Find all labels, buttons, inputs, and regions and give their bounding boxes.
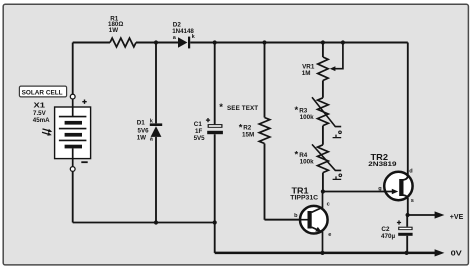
wire solar cell top lead: [72, 43, 74, 95]
resistor R2: [259, 118, 270, 144]
wire 0V rail: [215, 252, 435, 255]
svg-text:470µ: 470µ: [381, 233, 396, 240]
output +VE arrowhead: [435, 211, 445, 218]
wire VR1 wiper to top rail: [335, 43, 343, 69]
node C1 bottom junction: [213, 220, 217, 224]
label X1 plus polarity: [82, 100, 86, 104]
label C1 plus polarity: [206, 118, 210, 122]
svg-text:5V6: 5V6: [138, 127, 150, 134]
solar cell X1 body: [55, 99, 91, 167]
wire positive top rail: [73, 42, 408, 44]
wire TR1 base lead: [265, 219, 308, 221]
transistor TR1: [265, 192, 328, 253]
wire TR2 drain column: [407, 43, 409, 177]
svg-text:100k: 100k: [300, 158, 315, 165]
resistor R1: [110, 38, 136, 47]
node D1 top rail junction: [154, 40, 158, 44]
wire R2 branch: [264, 43, 266, 220]
node C1 top rail junction: [213, 40, 217, 44]
wire TR2 gate line: [323, 191, 392, 193]
svg-text:*: *: [219, 102, 223, 113]
svg-text:100k: 100k: [300, 114, 315, 121]
preset resistor R3: [312, 97, 341, 137]
svg-text:1W: 1W: [137, 134, 146, 141]
svg-text:5V5: 5V5: [194, 135, 206, 142]
svg-text:*: *: [295, 149, 299, 160]
label SOLAR CELL callout box: [19, 86, 66, 97]
svg-text:b: b: [294, 213, 298, 219]
node TR1 emitter 0V junction: [320, 251, 324, 255]
svg-text:+VE: +VE: [450, 212, 464, 221]
svg-text:D1: D1: [137, 119, 146, 126]
node VR1 wiper rail junction: [341, 40, 345, 44]
node C2 0V junction: [405, 251, 409, 255]
node TR1 collector gate junction: [321, 189, 325, 193]
svg-text:15M: 15M: [242, 131, 254, 138]
node R2 top rail junction: [262, 40, 266, 44]
svg-text:TR1: TR1: [292, 186, 309, 196]
zener diode D1: [150, 123, 162, 136]
capacitor C1: [207, 124, 223, 134]
svg-text:0V: 0V: [451, 249, 462, 258]
wire D1 branch: [155, 43, 157, 223]
svg-text:g: g: [378, 186, 382, 192]
wire TR2 source column: [407, 198, 409, 215]
wire C2 leads: [406, 215, 408, 253]
node solar cell bottom terminal: [70, 167, 75, 172]
wire C1 column down to 0V rail: [214, 223, 216, 253]
svg-text:*: *: [295, 105, 299, 116]
svg-text:C2: C2: [381, 226, 390, 233]
node D1 bottom junction: [154, 220, 158, 224]
svg-text:SEE TEXT: SEE TEXT: [227, 105, 258, 112]
svg-text:e: e: [328, 232, 331, 238]
wire bottom negative horizontal: [73, 222, 215, 224]
svg-text:d: d: [409, 169, 413, 175]
svg-text:s: s: [411, 198, 414, 204]
label C2 plus polarity: [397, 220, 401, 224]
potentiometer VR1: [318, 57, 336, 81]
svg-text:2N3819: 2N3819: [368, 161, 397, 168]
svg-text:1W: 1W: [109, 27, 118, 34]
wire +VE output line: [408, 214, 435, 216]
svg-text:1M: 1M: [302, 70, 311, 77]
wire solar cell bottom lead: [72, 171, 74, 222]
svg-text:45mA: 45mA: [33, 117, 50, 124]
output 0V arrowhead: [435, 249, 445, 256]
node solar cell top terminal: [70, 94, 75, 99]
svg-text:R2: R2: [243, 124, 252, 131]
transistor TR2: [384, 172, 413, 200]
diode D2: [178, 37, 190, 49]
wire C1 branch: [214, 43, 216, 223]
svg-text:TIPP31C: TIPP31C: [290, 196, 319, 202]
wire VR1 R3 R4 chain: [322, 43, 324, 192]
node VR1 top rail junction: [321, 40, 325, 44]
svg-text:c: c: [327, 201, 330, 207]
label X1 minus polarity: [81, 161, 87, 163]
preset resistor R4: [312, 144, 342, 179]
node +VE source junction: [406, 213, 410, 217]
svg-text:SOLAR CELL: SOLAR CELL: [22, 90, 63, 97]
capacitor C2: [398, 227, 412, 236]
svg-text:X1: X1: [34, 100, 46, 109]
light arrows into solar cell: [42, 129, 52, 136]
